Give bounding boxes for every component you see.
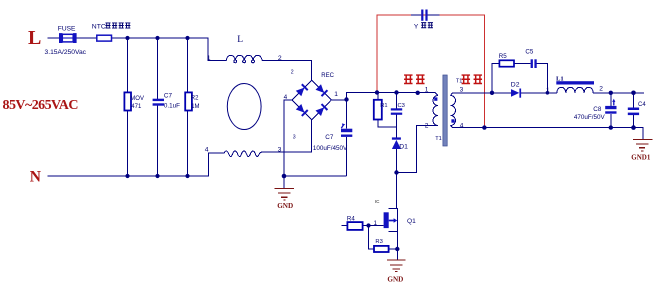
svg-text:L: L — [28, 27, 41, 49]
svg-text:R4: R4 — [347, 215, 355, 222]
svg-text:R5: R5 — [499, 53, 507, 60]
svg-text:2: 2 — [278, 55, 282, 62]
svg-text:4: 4 — [205, 147, 209, 154]
svg-text:T1: T1 — [456, 78, 463, 84]
svg-text:85V~265VAC: 85V~265VAC — [3, 98, 79, 113]
svg-text:C8: C8 — [593, 106, 602, 113]
svg-text:2: 2 — [599, 85, 603, 92]
svg-text:1M: 1M — [191, 104, 199, 110]
svg-text:GND1: GND1 — [631, 153, 651, 161]
svg-text:Q1: Q1 — [407, 218, 416, 225]
svg-text:3: 3 — [293, 135, 296, 141]
svg-text:R3: R3 — [375, 239, 382, 245]
svg-text:R1: R1 — [380, 103, 387, 109]
svg-text:1: 1 — [207, 55, 211, 62]
svg-text:L1: L1 — [556, 75, 564, 82]
svg-text:MOV: MOV — [130, 96, 144, 102]
svg-text:1: 1 — [425, 87, 429, 94]
svg-text:1: 1 — [546, 87, 550, 94]
svg-text:471: 471 — [131, 104, 142, 110]
svg-text:C3: C3 — [398, 103, 405, 109]
svg-text:REC: REC — [321, 73, 334, 79]
svg-text:2: 2 — [291, 69, 294, 75]
svg-text:470uF/50V: 470uF/50V — [574, 114, 606, 121]
svg-text:T1: T1 — [435, 136, 442, 142]
svg-text:C7: C7 — [164, 92, 173, 99]
svg-text:3: 3 — [460, 87, 464, 94]
svg-text:2: 2 — [425, 123, 429, 130]
svg-text:C4: C4 — [638, 102, 646, 108]
svg-text:GND: GND — [277, 202, 293, 210]
svg-text:GND: GND — [387, 275, 403, 283]
svg-text:R2: R2 — [191, 95, 199, 101]
svg-text:4: 4 — [284, 94, 288, 101]
svg-text:NTC: NTC — [92, 24, 106, 31]
svg-text:C5: C5 — [525, 48, 533, 55]
svg-text:1: 1 — [334, 91, 338, 98]
svg-text:1: 1 — [374, 220, 378, 227]
svg-text:Y: Y — [414, 23, 419, 30]
svg-text:0.1uF: 0.1uF — [164, 102, 180, 109]
svg-text:D2: D2 — [511, 82, 520, 89]
svg-text:IC: IC — [375, 199, 380, 204]
svg-text:D1: D1 — [399, 144, 408, 151]
svg-text:4: 4 — [460, 123, 464, 130]
svg-text:N: N — [30, 169, 41, 186]
svg-text:3.15A/250Vac: 3.15A/250Vac — [45, 49, 87, 56]
svg-text:100uF/450V: 100uF/450V — [313, 145, 348, 152]
svg-text:3: 3 — [278, 147, 282, 154]
svg-text:FUSE: FUSE — [58, 26, 76, 33]
svg-text:C7: C7 — [325, 134, 334, 141]
svg-text:L: L — [237, 35, 243, 45]
